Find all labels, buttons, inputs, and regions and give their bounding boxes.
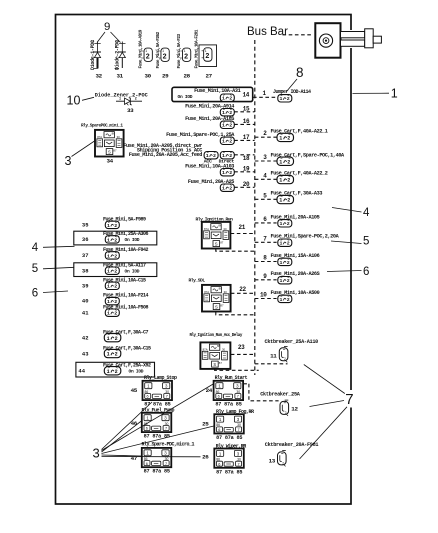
- relay K25 Rly_Lamp_Fog,RR: [214, 414, 244, 441]
- dashed wire bus to fuse 6: [255, 222, 277, 224]
- svg-text:4: 4: [263, 172, 267, 179]
- svg-text:2: 2: [263, 130, 267, 137]
- svg-text:30: 30: [145, 73, 152, 80]
- fuse F14 symbol: [220, 94, 234, 102]
- svg-text:Fuse_Mini,20A-A105: Fuse_Mini,20A-A105: [271, 214, 320, 220]
- callout line 3 to relay 47: [102, 455, 142, 456]
- svg-text:2: 2: [205, 53, 209, 61]
- svg-text:1: 1: [222, 153, 225, 159]
- fuse 14 highlight box: [172, 87, 253, 101]
- callout line 8 to jumper: [287, 79, 298, 92]
- fuse F39 symbol (mini): [105, 282, 119, 290]
- svg-text:86: 86: [219, 287, 223, 291]
- fuse F27 Fuse_Mini,10A-F281 (vertical): [202, 48, 212, 61]
- svg-text:1: 1: [162, 49, 164, 53]
- svg-text:Fuse_Mini,20A-A26S: Fuse_Mini,20A-A26S: [271, 271, 320, 277]
- svg-text:Bus Bar: Bus Bar: [247, 26, 288, 38]
- callout line 7 to breaker 11: [304, 365, 345, 394]
- relay K22 Rly_SDL: [202, 285, 231, 312]
- relay K26 Rly_Wiper,RR: [214, 449, 244, 476]
- svg-text:S: S: [215, 305, 218, 310]
- fuse F30 Fuse_Mini,10A-A919 (vertical): [142, 48, 152, 61]
- svg-text:87: 87: [220, 240, 224, 244]
- callout line 3 to relay 25: [102, 426, 214, 454]
- dashed wire fuse 19 to bus: [234, 171, 254, 173]
- svg-text:42: 42: [82, 334, 89, 341]
- svg-text:1: 1: [222, 96, 225, 102]
- svg-text:7: 7: [263, 235, 267, 242]
- svg-text:Diode-2-PDC: Diode-2-PDC: [115, 40, 121, 70]
- svg-text:2: 2: [287, 96, 290, 102]
- diode D32 Diode-1-PDC: [91, 39, 101, 69]
- dashed wire relay 24 to riser: [243, 383, 249, 385]
- svg-text:6: 6: [146, 427, 148, 431]
- fuse F43 symbol (cartridge): [104, 349, 121, 357]
- dashed wire relay 23 to bus: [231, 353, 255, 355]
- svg-text:Rly_Spare-PDC,micro_1: Rly_Spare-PDC,micro_1: [142, 441, 195, 447]
- diode D31 Diode-2-PDC: [115, 39, 126, 69]
- svg-text:Rly_SDL: Rly_SDL: [189, 278, 206, 284]
- svg-text:2: 2: [287, 221, 290, 227]
- svg-text:27: 27: [206, 73, 213, 80]
- svg-text:2: 2: [114, 253, 117, 259]
- relay K34 Rly_SparePOC_mini_1: [95, 130, 124, 157]
- bus bar stud terminal: [315, 23, 381, 58]
- svg-text:2: 2: [229, 153, 232, 159]
- svg-text:2: 2: [229, 170, 232, 176]
- dashed wire relay 22 bottom to bus: [216, 312, 255, 315]
- dashed wire fuse 20 to bus: [234, 186, 254, 188]
- svg-text:Fuse_Mini,10A-A919: Fuse_Mini,10A-A919: [139, 29, 144, 68]
- dashed wire bus to fuse 7: [255, 241, 277, 243]
- svg-text:5: 5: [32, 263, 38, 275]
- svg-text:1: 1: [222, 110, 225, 116]
- svg-text:7: 7: [238, 428, 240, 432]
- svg-text:On IOD: On IOD: [178, 94, 193, 100]
- svg-text:86: 86: [218, 224, 222, 228]
- svg-text:1: 1: [279, 198, 282, 204]
- fuse F37 symbol (mini): [105, 252, 119, 260]
- svg-text:7: 7: [345, 391, 353, 408]
- svg-text:Fuse_Mini,5A-F262: Fuse_Mini,5A-F262: [156, 31, 161, 68]
- svg-text:1: 1: [205, 49, 207, 53]
- svg-text:87 87a 85: 87 87a 85: [144, 434, 170, 440]
- fuse F29 Fuse_Mini,5A-F262 (vertical): [159, 48, 169, 61]
- fuse 7 symbol (mini): [278, 239, 292, 247]
- svg-text:2: 2: [163, 53, 167, 61]
- svg-text:Direct: Direct: [219, 158, 235, 164]
- callout line 4 (left): [43, 246, 75, 247]
- svg-text:1: 1: [184, 49, 186, 53]
- callout line 1 to enclosure: [353, 92, 390, 94]
- svg-text:18: 18: [243, 155, 250, 162]
- svg-text:2: 2: [184, 53, 188, 61]
- callout line 3 to relay 46: [102, 421, 142, 452]
- svg-text:29: 29: [162, 73, 169, 80]
- callout line 5 (right): [331, 241, 362, 244]
- dashed wire bus to fuse 5: [255, 198, 277, 200]
- svg-text:1: 1: [222, 186, 225, 192]
- svg-text:On IOD: On IOD: [125, 269, 140, 275]
- svg-text:1: 1: [222, 123, 225, 129]
- svg-text:S: S: [108, 150, 111, 155]
- relay K46 Rly_Fuel_Pump: [142, 413, 172, 440]
- svg-text:12: 12: [291, 406, 298, 413]
- relay K21 Rly_Ignition_Run: [202, 222, 231, 249]
- callout line 4 (right): [332, 208, 362, 213]
- callout line 6 (right): [327, 271, 362, 272]
- svg-text:3: 3: [65, 154, 72, 168]
- relay K45 Rly_Lamp_Stop: [143, 381, 173, 408]
- svg-text:Cktbreaker_25A-A110: Cktbreaker_25A-A110: [265, 339, 319, 345]
- svg-text:2: 2: [287, 260, 290, 266]
- svg-text:87 87a 85: 87 87a 85: [144, 469, 170, 475]
- breaker CB13 symbol: [278, 451, 287, 467]
- svg-text:1: 1: [222, 139, 225, 145]
- dashed bus wire vertical: [254, 40, 256, 375]
- svg-text:1: 1: [206, 153, 209, 159]
- fuse F27 holder outline: [199, 45, 217, 67]
- svg-text:Fuse_Mini,20A-A205,Acc_feed: Fuse_Mini,20A-A205,Acc_feed: [129, 152, 203, 158]
- svg-text:87: 87: [113, 148, 117, 152]
- callout line 3 to relay 45: [102, 402, 153, 450]
- svg-text:34: 34: [107, 158, 114, 165]
- svg-text:44: 44: [78, 368, 85, 375]
- callout line 7 to breaker 13: [300, 407, 348, 459]
- svg-text:7: 7: [165, 462, 167, 466]
- svg-text:87 87a 85: 87 87a 85: [216, 469, 242, 475]
- svg-text:33: 33: [127, 107, 134, 114]
- svg-text:1: 1: [107, 237, 110, 243]
- svg-text:8: 8: [263, 255, 267, 262]
- svg-text:40: 40: [82, 298, 89, 305]
- dashed wire bus to fuse 8: [255, 261, 277, 263]
- svg-text:2: 2: [135, 97, 137, 101]
- svg-text:2: 2: [229, 123, 232, 129]
- svg-text:1: 1: [280, 260, 283, 266]
- relay K47 Rly_Spare-PDC,micro_1: [142, 448, 172, 475]
- fuse F18 symbol ACC: [204, 152, 218, 160]
- svg-text:1: 1: [222, 170, 225, 176]
- svg-text:21: 21: [239, 224, 246, 231]
- svg-text:1: 1: [107, 253, 110, 259]
- svg-text:Cktbreaker_25A: Cktbreaker_25A: [260, 391, 301, 397]
- svg-text:S: S: [213, 362, 216, 367]
- svg-text:25: 25: [202, 421, 209, 428]
- svg-text:6: 6: [218, 395, 220, 399]
- svg-text:87 87a 85: 87 87a 85: [216, 435, 242, 441]
- svg-text:2: 2: [285, 411, 287, 415]
- svg-text:6: 6: [218, 462, 220, 466]
- fuse 2 symbol (cartridge): [277, 133, 294, 141]
- svg-text:10: 10: [67, 93, 81, 107]
- svg-text:11: 11: [270, 353, 277, 360]
- svg-text:9: 9: [263, 273, 267, 280]
- dashed wire Bus Bar label to stud: [283, 34, 314, 36]
- svg-text:28: 28: [184, 73, 191, 80]
- svg-text:6: 6: [146, 462, 148, 466]
- svg-text:1: 1: [263, 90, 267, 97]
- svg-text:1: 1: [391, 86, 398, 100]
- fuse F44 symbol (cartridge): [104, 367, 121, 375]
- fuse F38 symbol (mini): [105, 267, 119, 275]
- breaker CB12 symbol: [280, 400, 289, 416]
- svg-text:2: 2: [213, 153, 216, 159]
- svg-text:1: 1: [279, 159, 282, 165]
- svg-text:2: 2: [115, 352, 118, 358]
- svg-text:87: 87: [220, 303, 224, 307]
- svg-text:4: 4: [32, 242, 39, 254]
- fuse 5 symbol (cartridge): [277, 195, 294, 203]
- callout line 3 to relay 24: [102, 384, 214, 451]
- svg-text:2: 2: [229, 110, 232, 116]
- fuse 6 symbol (mini): [278, 220, 292, 228]
- callout line 5 (left): [43, 267, 75, 269]
- svg-text:26: 26: [202, 454, 209, 461]
- fuse 38 highlight box: [74, 263, 157, 277]
- svg-text:41: 41: [82, 309, 89, 316]
- svg-text:Fuse_Mini,5A-F23: Fuse_Mini,5A-F23: [177, 33, 182, 68]
- svg-text:22: 22: [239, 286, 246, 293]
- svg-text:4: 4: [363, 207, 370, 219]
- svg-text:1: 1: [107, 352, 110, 358]
- svg-text:1: 1: [107, 223, 110, 229]
- svg-text:Diode_Zener_2-POC: Diode_Zener_2-POC: [95, 92, 148, 98]
- svg-text:1: 1: [107, 284, 110, 290]
- svg-text:S: S: [215, 242, 218, 247]
- dashed wire relay 23 bottom to bus: [215, 369, 259, 370]
- fuse F41 symbol (mini): [105, 309, 119, 317]
- svg-text:2: 2: [287, 136, 290, 142]
- svg-text:2: 2: [284, 357, 286, 361]
- svg-text:5: 5: [363, 236, 369, 248]
- svg-text:43: 43: [82, 350, 89, 357]
- svg-text:1: 1: [280, 96, 283, 102]
- svg-text:7: 7: [165, 427, 167, 431]
- svg-text:1: 1: [107, 336, 110, 342]
- svg-text:1: 1: [279, 136, 282, 142]
- svg-text:Diode-1-PDC: Diode-1-PDC: [90, 40, 96, 70]
- svg-text:Rly_SparePOC_mini_1: Rly_SparePOC_mini_1: [81, 123, 123, 128]
- fuse F19 symbol: [220, 169, 234, 177]
- svg-text:1: 1: [119, 97, 121, 101]
- svg-text:1: 1: [280, 278, 283, 284]
- svg-text:3: 3: [93, 446, 100, 461]
- svg-text:2: 2: [229, 139, 232, 145]
- svg-text:2: 2: [287, 198, 290, 204]
- fuse F40 symbol (mini): [105, 297, 119, 305]
- svg-text:10: 10: [260, 292, 267, 299]
- svg-text:8: 8: [296, 65, 304, 80]
- border gap for callout 7: [349, 390, 353, 408]
- PDC enclosure border: [56, 15, 352, 505]
- svg-text:39: 39: [82, 282, 89, 289]
- fuse F42 symbol (cartridge): [104, 334, 121, 342]
- svg-text:Fuse_Mini,15A-A106: Fuse_Mini,15A-A106: [271, 253, 320, 259]
- dashed wire fuse 18 to bus: [234, 154, 254, 156]
- svg-text:35: 35: [82, 222, 89, 229]
- svg-text:2: 2: [229, 186, 232, 192]
- dashed wire bus to fuse 3: [255, 160, 277, 162]
- svg-text:7: 7: [166, 395, 168, 399]
- svg-text:14: 14: [243, 92, 250, 99]
- svg-text:87: 87: [219, 361, 223, 365]
- svg-text:6: 6: [218, 428, 220, 432]
- dashed wire fuse 14 to bus to jumper: [253, 96, 277, 98]
- svg-text:1: 1: [279, 178, 282, 184]
- svg-text:2: 2: [287, 178, 290, 184]
- fuse 3 symbol (cartridge): [277, 157, 294, 165]
- dashed wire bus to fuse 4: [255, 178, 277, 180]
- svg-text:38: 38: [82, 267, 89, 274]
- fuse 4 symbol (cartridge): [277, 175, 294, 183]
- svg-text:2: 2: [287, 241, 290, 247]
- svg-text:7: 7: [237, 395, 239, 399]
- dashed wire bus to fuse 10: [255, 298, 277, 300]
- dashed wire bus to fuse 2: [255, 136, 277, 138]
- svg-text:7: 7: [238, 462, 240, 466]
- svg-text:32: 32: [96, 73, 103, 80]
- svg-text:86: 86: [217, 344, 221, 348]
- dashed wire relay 22 to bus: [231, 292, 255, 294]
- fuse 9 symbol (mini): [278, 277, 292, 285]
- fuse F17 symbol: [220, 137, 234, 145]
- dashed wire riser to breaker 12: [249, 384, 279, 401]
- svg-text:2: 2: [287, 159, 290, 165]
- svg-text:1: 1: [107, 269, 110, 275]
- jumper J1 symbol: [278, 95, 292, 103]
- svg-text:2: 2: [287, 278, 290, 284]
- svg-text:13: 13: [269, 458, 276, 465]
- zener diode D33 symbol: [116, 97, 142, 105]
- svg-text:1: 1: [280, 241, 283, 247]
- svg-text:87 87a 85: 87 87a 85: [215, 402, 241, 408]
- fuse 8 symbol (mini): [278, 258, 292, 266]
- svg-text:23: 23: [238, 344, 245, 351]
- svg-text:Rly_Ignition_Run_Acc_Delay: Rly_Ignition_Run_Acc_Delay: [190, 333, 243, 338]
- svg-text:ACC: ACC: [204, 158, 212, 164]
- svg-text:86: 86: [112, 132, 116, 136]
- svg-text:9: 9: [104, 21, 110, 33]
- fuse 44 highlight box: [76, 362, 155, 377]
- svg-text:2: 2: [115, 336, 118, 342]
- dashed wire bus to fuse 9: [255, 279, 277, 281]
- svg-text:2: 2: [114, 269, 117, 275]
- fuse F36 symbol (mini): [105, 236, 119, 244]
- callout line 3 to relay 34: [72, 141, 95, 157]
- fuse 10 symbol (mini): [278, 295, 292, 303]
- callout line 7 to breaker 12: [310, 401, 345, 407]
- svg-text:6: 6: [363, 266, 369, 278]
- svg-text:2: 2: [229, 96, 232, 102]
- callout line 3 to relay 26: [102, 456, 201, 458]
- svg-text:1: 1: [280, 297, 283, 303]
- svg-text:2: 2: [114, 284, 117, 290]
- fuse 36 highlight box: [74, 231, 157, 245]
- svg-text:2: 2: [114, 237, 117, 243]
- svg-text:1: 1: [107, 369, 110, 375]
- svg-text:5: 5: [263, 192, 267, 199]
- fuse F20 symbol: [220, 184, 234, 192]
- svg-text:37: 37: [82, 252, 89, 259]
- svg-text:1: 1: [107, 311, 110, 317]
- fuse F35 symbol (mini): [105, 221, 119, 229]
- svg-text:6: 6: [147, 395, 149, 399]
- callout line 10 to zener: [82, 97, 94, 100]
- svg-text:2: 2: [114, 223, 117, 229]
- svg-text:1: 1: [145, 49, 147, 53]
- callout line 9 to diode 31: [111, 32, 121, 43]
- callout line 6 (left): [43, 291, 68, 293]
- svg-text:2: 2: [282, 461, 284, 465]
- svg-text:2: 2: [114, 311, 117, 317]
- svg-text:2: 2: [115, 369, 118, 375]
- breaker CB11 symbol: [279, 347, 288, 363]
- dashed wire bus to breaker 11: [255, 363, 288, 365]
- svg-text:6: 6: [32, 287, 38, 299]
- svg-text:3: 3: [263, 154, 267, 161]
- dashed wire relay 21 bottom to bus: [216, 249, 255, 252]
- dashed wire fuse 17 to bus: [234, 139, 254, 141]
- svg-text:2: 2: [287, 297, 290, 303]
- svg-text:36: 36: [82, 236, 89, 243]
- dashed wire relay 21 to bus: [231, 233, 255, 235]
- svg-text:Fuse_Mini,10A-F281: Fuse_Mini,10A-F281: [195, 29, 200, 68]
- relay K23 Rly_Ignition_Run_Acc_Delay: [200, 342, 230, 369]
- dashed wire fuse 16 to bus: [234, 123, 254, 125]
- svg-text:2: 2: [146, 53, 150, 61]
- fuse F18 symbol Direct: [220, 152, 234, 160]
- svg-text:31: 31: [117, 73, 124, 80]
- svg-text:45: 45: [131, 387, 138, 394]
- svg-text:Fuse_Mini,10A-A31: Fuse_Mini,10A-A31: [194, 88, 240, 94]
- svg-text:1: 1: [280, 221, 283, 227]
- fuse F15 symbol: [220, 109, 234, 117]
- svg-text:6: 6: [263, 216, 267, 223]
- svg-text:On IOD: On IOD: [125, 237, 140, 243]
- relay K24 Rly_Run_Start: [214, 381, 244, 408]
- svg-text:On IOD: On IOD: [129, 369, 144, 375]
- fuse F28 Fuse_Mini,5A-F23 (vertical): [180, 48, 190, 61]
- fuse F16 symbol: [220, 121, 234, 129]
- svg-text:Fuse_Mini,10A-A500: Fuse_Mini,10A-A500: [271, 290, 320, 296]
- svg-text:Jumper IOD-A114: Jumper IOD-A114: [273, 89, 311, 95]
- dashed wire fuse 15 to bus: [234, 111, 254, 113]
- callout line 9 to diode 32: [97, 32, 105, 43]
